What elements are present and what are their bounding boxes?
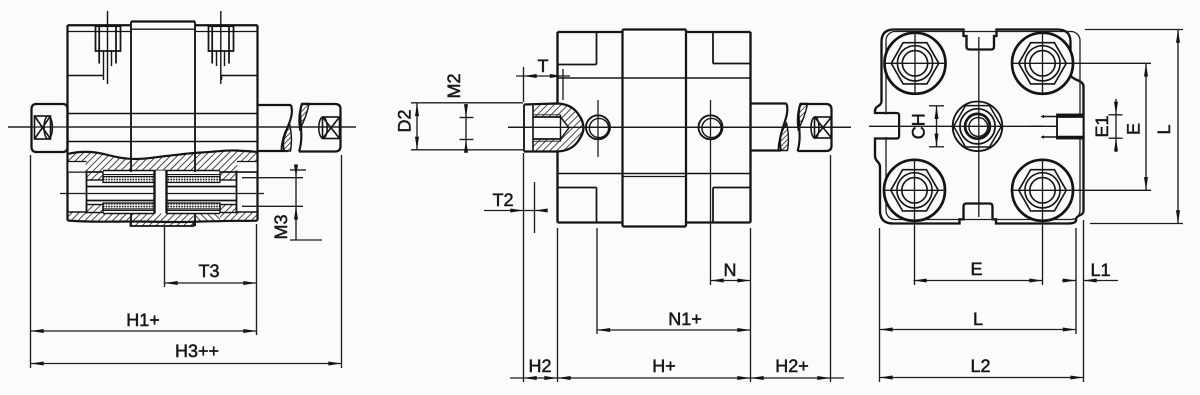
dim E1 line: [1115, 99, 1117, 152]
break hatch blob upper: [798, 104, 808, 130]
right port passage lines: [222, 75, 258, 77]
svg-text:M2: M2: [444, 73, 464, 98]
body outline: [558, 31, 623, 33]
dim CH line: [936, 106, 938, 147]
port hole right (circle): [699, 115, 723, 139]
left end cap bushing blocks (hatched): [87, 172, 104, 180]
left rod end wrench-flat square with X: [35, 116, 53, 139]
left rod end cap: [32, 104, 68, 152]
dim D2 line: [416, 103, 418, 150]
section axis centerline: [60, 193, 264, 195]
break hatch blob upper: [299, 104, 309, 130]
center tube block (raised): [131, 20, 195, 22]
dim H2 / H+ / H2+ baseline: [510, 377, 844, 379]
sensor set-screw tab at right edge: [1057, 115, 1084, 139]
H2+ arrows: [751, 376, 764, 380]
piston center web: [155, 171, 167, 214]
upper piston seal band (stippled): [103, 177, 155, 183]
D2 arrows: [415, 103, 419, 116]
right rod stub with break: [258, 104, 292, 106]
M2 arrows: [464, 104, 468, 117]
dim L1 line: [1062, 280, 1076, 282]
dim L (bottom) line: [880, 329, 1077, 331]
left port (threaded hole): [96, 26, 121, 80]
svg-text:L1: L1: [1090, 260, 1110, 280]
break hatch blob lower: [778, 123, 788, 151]
main rod centerline: [8, 126, 356, 128]
svg-text:D2: D2: [395, 109, 415, 132]
svg-text:H+: H+: [652, 356, 676, 376]
svg-text:H2+: H2+: [775, 356, 809, 376]
bore hidden lines through body: [68, 113, 258, 115]
mounting screw bottom-left: [884, 160, 945, 285]
body top inner line: [68, 31, 132, 33]
H+ arrows: [558, 376, 571, 380]
dim E (vertical) line: [1145, 63, 1147, 190]
body outline with T-slots and side notches: [875, 30, 1084, 224]
right rod end cap: [299, 104, 341, 152]
section side edges: [66, 153, 68, 221]
svg-text:H3++: H3++: [175, 341, 219, 361]
tube wall verticals through section: [130, 214, 132, 227]
svg-text:M3: M3: [271, 214, 291, 239]
svg-text:L2: L2: [970, 356, 990, 376]
dim H3++ line: [31, 363, 342, 365]
H1+ arrows: [31, 329, 44, 333]
T2 arrows: [510, 209, 523, 213]
view vertical centerline: [978, 37, 980, 217]
svg-text:L: L: [1154, 124, 1174, 134]
svg-text:T: T: [538, 56, 549, 76]
left port centerline: [107, 11, 109, 84]
section top wavy surface line: [68, 150, 258, 159]
M3 arrows: [294, 165, 298, 178]
dim T2 line: [484, 210, 546, 212]
body outline left edge: [66, 25, 68, 153]
body top edge: [68, 24, 132, 26]
section bottom surface line: [68, 221, 258, 223]
piston rod end dome (sectioned, hatched): [524, 104, 584, 152]
center tube block: [621, 30, 623, 227]
svg-text:N: N: [724, 260, 737, 280]
body horizontal face lines: [558, 77, 751, 79]
mounting screw top-right: [1012, 33, 1151, 94]
L2 arrows: [880, 376, 893, 380]
svg-text:E1: E1: [1092, 115, 1112, 137]
L bottom arrows: [880, 328, 893, 332]
inner contour line: [886, 32, 1080, 220]
dim L2 line: [880, 377, 1084, 379]
dim N line: [711, 280, 751, 282]
svg-text:N1+: N1+: [668, 309, 702, 329]
break curve 1: [283, 105, 292, 151]
dim L (vertical) line: [1177, 30, 1179, 224]
right rod end wrench-flat square with X: [319, 117, 340, 139]
corner notch square top-right: [712, 32, 714, 64]
port hole right centerline (extends to N dimension): [710, 100, 712, 285]
dim M3 line: [295, 170, 297, 240]
body outline right edge: [256, 25, 258, 152]
T3 arrows: [165, 281, 178, 285]
T arrows: [524, 74, 537, 78]
N arrows: [711, 279, 724, 283]
right port centerline: [220, 11, 222, 84]
upper seal strip lines: [103, 174, 220, 176]
rod end cap (middle view): [798, 104, 832, 151]
break curve 2: [299, 104, 302, 152]
svg-text:E: E: [1124, 123, 1144, 135]
L vertical arrows: [1176, 30, 1180, 43]
dim E (bottom) line: [914, 280, 1043, 282]
svg-text:H2: H2: [528, 356, 551, 376]
rod end female thread: [533, 116, 561, 118]
main axis centerline: [508, 126, 851, 128]
set-screw shank lines: [1044, 116, 1057, 118]
lower piston seal band (stippled): [103, 203, 155, 209]
port hole left (circle): [586, 115, 610, 139]
rod end wrench-flat square with X (middle view): [811, 117, 832, 138]
left port passage lines: [68, 75, 104, 77]
end cap white pockets: [68, 162, 85, 172]
corner notch square bottom-right: [713, 187, 751, 189]
mounting screw bottom-right: [1012, 160, 1151, 285]
corner notch square bottom-left: [558, 187, 597, 189]
corner notch square top-left: [596, 32, 598, 65]
E1 arrows: [1114, 102, 1118, 115]
rod end face and wiper washer: [523, 105, 525, 152]
break hatch blob lower: [281, 124, 291, 152]
L1 arrows: [1063, 279, 1076, 283]
bottom center step block (hatched): [131, 222, 194, 227]
svg-text:E: E: [970, 259, 982, 279]
dim T3 line: [165, 282, 257, 284]
dim T line: [516, 75, 570, 77]
CH arrows: [935, 106, 939, 119]
break curve 1: [780, 104, 787, 151]
H2 arrows: [524, 376, 537, 380]
right port (threaded hole): [209, 26, 234, 66]
piston rod (section): [87, 186, 155, 188]
svg-text:T2: T2: [492, 190, 513, 210]
dim H1+ line: [31, 330, 257, 332]
N1+ arrows: [597, 328, 610, 332]
center rod boss: [953, 102, 1003, 152]
view horizontal centerline: [869, 125, 1070, 127]
right rod with break symbol: [751, 102, 787, 104]
E vertical arrows: [1144, 63, 1148, 76]
right end cap bushing blocks (hatched): [220, 172, 237, 180]
dim M2 line: [465, 104, 467, 147]
H3++ arrows: [31, 362, 44, 366]
E bottom arrows: [914, 279, 927, 283]
port hole left centerline: [597, 100, 599, 157]
left end cap bore lines: [67, 172, 69, 212]
section bottom wall hatched band: [68, 212, 131, 222]
right end cap bore lines: [257, 172, 259, 212]
svg-text:T3: T3: [198, 261, 219, 281]
svg-text:H1+: H1+: [126, 310, 160, 330]
rod axis centerline overlays: [8, 126, 356, 128]
section top wall hatched band: [68, 150, 258, 172]
mounting screw top-left: [885, 33, 946, 94]
svg-text:L: L: [973, 309, 983, 329]
svg-text:CH: CH: [909, 113, 929, 139]
dim M3 extension lines: [242, 177, 303, 179]
dim N1+ line: [597, 329, 751, 331]
break curve 2: [798, 104, 801, 152]
